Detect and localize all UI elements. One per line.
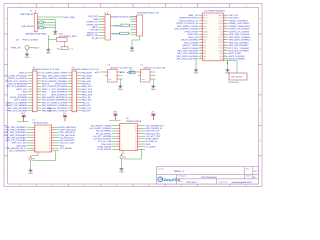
svg-text:E: E: [259, 140, 261, 143]
svg-text:SPI1_MISO_ADC6/PA6: SPI1_MISO_ADC6/PA6: [176, 55, 199, 58]
svg-text:CSN_NRF24L01: CSN_NRF24L01: [60, 134, 76, 137]
svg-text:PA1: PA1: [203, 41, 206, 44]
svg-text:3: 3: [33, 78, 34, 80]
svg-text:C6 104: C6 104: [112, 32, 118, 35]
svg-text:NRST: NRST: [203, 30, 208, 33]
svg-text:KM_USART1_RX/PA10: KM_USART1_RX/PA10: [89, 127, 112, 130]
svg-text:REV:: REV:: [246, 167, 251, 170]
svg-text:GND: GND: [28, 172, 33, 175]
svg-text:AMS1117-5.0_SOT-223: AMS1117-5.0_SOT-223: [143, 66, 166, 69]
svg-text:5V: 5V: [152, 111, 155, 114]
svg-text:ADC9_TIM3/PB1: ADC9_TIM3/PB1: [51, 80, 68, 83]
svg-text:USART_RX: USART_RX: [86, 23, 98, 26]
svg-text:KEY_USER_PC13/LED1: KEY_USER_PC13/LED1: [4, 74, 28, 77]
svg-text:3V3: 3V3: [42, 93, 47, 96]
svg-text:SPI1_MOSI_T3/PA7: SPI1_MOSI_T3/PA7: [48, 74, 68, 77]
svg-text:U6: U6: [126, 117, 128, 120]
svg-text:PB15_MO: PB15_MO: [82, 99, 92, 102]
svg-text:Your Company: Your Company: [201, 176, 218, 179]
svg-text:PA12: PA12: [219, 22, 223, 25]
svg-text:VDD_3V3: VDD_3V3: [229, 14, 239, 17]
svg-text:U2: U2: [33, 118, 35, 121]
svg-text:GND: GND: [25, 56, 30, 59]
svg-text:TP: TP: [124, 156, 127, 159]
svg-text:PA6_MISO: PA6_MISO: [82, 72, 93, 75]
svg-text:U4: U4: [141, 64, 143, 67]
svg-text:D: D: [259, 109, 261, 112]
svg-text:LED_ACT_OUT: LED_ACT_OUT: [146, 135, 162, 138]
svg-text:VBAT_IN: VBAT_IN: [19, 72, 28, 75]
svg-text:11: 11: [33, 100, 35, 102]
svg-text:NRF_SPI2_NSS/PB12: NRF_SPI2_NSS/PB12: [5, 126, 27, 129]
svg-text:USART1_RX_IR/PA10: USART1_RX_IR/PA10: [229, 28, 251, 31]
svg-text:KEY-BOOT0_SMD: KEY-BOOT0_SMD: [59, 35, 77, 38]
svg-text:PB11_SDA: PB11_SDA: [82, 88, 93, 91]
svg-text:14: 14: [72, 108, 74, 110]
svg-text:USART2_RX_DBG/PA3: USART2_RX_DBG/PA3: [5, 104, 28, 107]
svg-text:A: A: [259, 18, 261, 21]
svg-text:4: 4: [116, 5, 118, 8]
svg-text:PB10_SCL: PB10_SCL: [82, 85, 93, 88]
svg-text:SPI2_SCK/PB13: SPI2_SCK/PB13: [51, 93, 67, 96]
svg-text:OSC_IN/PD0_XTAL8M: OSC_IN/PD0_XTAL8M: [177, 25, 199, 28]
svg-text:SCK_NRF24L01: SCK_NRF24L01: [60, 131, 76, 134]
svg-text:SW1 RESET: SW1 RESET: [231, 76, 243, 79]
svg-text:XC1_16MHZ: XC1_16MHZ: [60, 147, 73, 150]
svg-text:OSC32_IN_X2/PC14: OSC32_IN_X2/PC14: [8, 77, 28, 80]
svg-text:PA5: PA5: [203, 52, 206, 55]
svg-text:PA4: PA4: [203, 49, 206, 52]
svg-text:HEADER-FEMALE 2.54-1x9: HEADER-FEMALE 2.54-1x9: [111, 16, 138, 19]
svg-text:PA10: PA10: [219, 28, 223, 31]
svg-text:MCO_TIM1_CH1/PA8: MCO_TIM1_CH1/PA8: [229, 33, 250, 36]
svg-text:USB_DM/USB_DP_11: USB_DM/USB_DP_11: [6, 147, 28, 150]
svg-text:10: 10: [72, 97, 74, 99]
svg-text:ADC1_IN/PA1: ADC1_IN/PA1: [14, 99, 28, 102]
svg-text:SPI1_SCK_ADC5/PA5: SPI1_SCK_ADC5/PA5: [177, 52, 199, 55]
svg-text:VBAT_3V3: VBAT_3V3: [188, 14, 199, 17]
svg-text:B: B: [259, 48, 261, 51]
svg-text:8: 8: [72, 91, 73, 93]
svg-text:1: 1: [33, 73, 34, 75]
svg-text:7: 7: [213, 5, 215, 8]
svg-text:NRF_IRQ_EXTI/PB10: NRF_IRQ_EXTI/PB10: [6, 136, 27, 139]
svg-text:VDDA_3V3: VDDA_3V3: [188, 36, 199, 39]
svg-text:CFG1_MODE1: CFG1_MODE1: [97, 148, 112, 151]
svg-text:2: 2: [52, 5, 54, 8]
svg-text:I2C2_SDA_RX3/PB11: I2C2_SDA_RX3/PB11: [229, 49, 250, 52]
svg-text:USART2_TX_DBG/PA2: USART2_TX_DBG/PA2: [5, 101, 28, 104]
svg-text:SPI2_MISO/PB14: SPI2_MISO/PB14: [50, 96, 67, 99]
svg-text:GND: GND: [42, 74, 47, 77]
svg-text:USART1_TX/PA9: USART1_TX/PA9: [51, 101, 68, 104]
svg-text:4.7K: 4.7K: [69, 48, 74, 51]
svg-text:NRST_KEY: NRST_KEY: [16, 88, 28, 91]
svg-text:PA7_MOSI: PA7_MOSI: [82, 74, 93, 77]
svg-text:CFG0_MODE0: CFG0_MODE0: [97, 145, 112, 148]
svg-text:GND: GND: [42, 91, 47, 94]
svg-text:SPI2_NSS/PB12: SPI2_NSS/PB12: [51, 91, 67, 94]
svg-text:GND: GND: [194, 72, 199, 75]
svg-text:PB0_AD8: PB0_AD8: [82, 77, 92, 80]
svg-text:GND: GND: [60, 144, 65, 147]
svg-text:7: 7: [33, 89, 34, 91]
svg-text:PA1_AD: PA1_AD: [42, 99, 50, 102]
svg-text:WKUP_ADC0/PA0: WKUP_ADC0/PA0: [10, 96, 28, 99]
svg-text:11: 11: [72, 100, 74, 102]
svg-text:7: 7: [72, 89, 73, 91]
svg-text:5V_USB_IN: 5V_USB_IN: [146, 140, 158, 143]
svg-text:12: 12: [72, 102, 74, 104]
svg-text:SPI2_SCK_I2S/PB13: SPI2_SCK_I2S/PB13: [229, 41, 250, 44]
svg-text:PWR_LED-0603: PWR_LED-0603: [23, 38, 39, 41]
svg-text:PA11: PA11: [219, 25, 223, 28]
svg-text:PA2: PA2: [203, 44, 206, 47]
svg-text:SWCLK_CK: SWCLK_CK: [86, 34, 99, 37]
svg-text:EasyEDA: EasyEDA: [164, 178, 181, 182]
svg-text:GND: GND: [108, 78, 112, 81]
svg-text:▸5V: ▸5V: [95, 71, 99, 74]
svg-text:PB15: PB15: [219, 36, 223, 39]
svg-text:PA11_DM: PA11_DM: [82, 107, 91, 110]
svg-text:GND: GND: [46, 51, 51, 54]
svg-text:J6 HEADER-MALE 1x8: J6 HEADER-MALE 1x8: [137, 11, 160, 14]
svg-text:MISO_NRF24L01: MISO_NRF24L01: [60, 129, 77, 132]
svg-text:GND: GND: [53, 33, 58, 36]
svg-text:ADC8_TIM3/PB0: ADC8_TIM3/PB0: [229, 58, 246, 61]
svg-text:8: 8: [33, 91, 34, 93]
svg-text:KM_USART1_TX/PA9: KM_USART1_TX/PA9: [91, 125, 112, 128]
svg-text:USBDP_CANTX/PA12: USBDP_CANTX/PA12: [229, 22, 251, 25]
svg-text:WKUP_ADC0/PA0: WKUP_ADC0/PA0: [181, 39, 199, 42]
svg-text:PA13: PA13: [219, 19, 223, 22]
svg-text:3: 3: [84, 5, 86, 8]
svg-text:ADC9_TIM3/PB1: ADC9_TIM3/PB1: [229, 55, 246, 58]
svg-text:CE_NRF24L01: CE_NRF24L01: [60, 136, 75, 139]
svg-text:5: 5: [149, 5, 151, 8]
svg-text:SPI2_MOSI/PB15: SPI2_MOSI/PB15: [50, 99, 67, 102]
svg-text:GND: GND: [23, 91, 28, 94]
svg-text:SPI1_NSS_ADC4/PA4: SPI1_NSS_ADC4/PA4: [177, 49, 199, 52]
svg-text:PD0: PD0: [203, 25, 206, 28]
svg-text:Sheet:: Sheet:: [246, 174, 252, 177]
svg-text:PB10: PB10: [219, 47, 223, 50]
svg-text:PB13: PB13: [219, 41, 223, 44]
svg-text:VDD3: VDD3: [218, 14, 223, 17]
svg-text:TP: TP: [33, 157, 36, 160]
svg-text:GND: GND: [146, 143, 151, 146]
svg-text:F: F: [260, 170, 262, 173]
svg-text:PD0_IN: PD0_IN: [42, 83, 50, 86]
svg-text:SWDIO_IO: SWDIO_IO: [87, 31, 98, 34]
svg-text:CH9329-SOP16: CH9329-SOP16: [126, 120, 142, 123]
svg-text:C5 104: C5 104: [113, 24, 119, 27]
svg-text:USB_DM_CRX/PA11: USB_DM_CRX/PA11: [47, 107, 67, 110]
svg-text:9: 9: [33, 94, 34, 96]
svg-text:GND: GND: [118, 88, 123, 91]
svg-text:SPI2_MOSI_TIM/PB15: SPI2_MOSI_TIM/PB15: [229, 36, 251, 39]
svg-text:PA8: PA8: [220, 33, 223, 36]
svg-text:13: 13: [72, 105, 74, 107]
svg-text:F: F: [5, 170, 7, 173]
svg-text:PB12_NSS: PB12_NSS: [82, 91, 93, 94]
svg-text:LED_STATE/PC13: LED_STATE/PC13: [9, 150, 27, 153]
svg-text:I2C2_SCL_TX3/PB10: I2C2_SCL_TX3/PB10: [229, 47, 250, 50]
svg-text:TAMPER-RTC/PC13: TAMPER-RTC/PC13: [179, 17, 199, 20]
svg-text:P1: P1: [30, 9, 32, 12]
svg-text:USB-MICRO-5P-SMD: USB-MICRO-5P-SMD: [25, 33, 47, 36]
svg-text:VCC_5V_USB: VCC_5V_USB: [98, 140, 112, 143]
svg-text:USART2_TX/PA2: USART2_TX/PA2: [182, 44, 199, 47]
svg-text:PA9_TX: PA9_TX: [82, 101, 90, 104]
svg-text:VBAT: VBAT: [203, 14, 207, 17]
svg-text:GND: GND: [93, 18, 98, 21]
svg-text:BOOT1_PB2: BOOT1_PB2: [229, 52, 242, 55]
svg-text:SWDIO_JTMS/PA13: SWDIO_JTMS/PA13: [229, 19, 249, 22]
svg-text:NRF_SPI2_MISO/PB14: NRF_SPI2_MISO/PB14: [4, 131, 27, 134]
svg-text:OSC_IN_8MHZ/PD0: OSC_IN_8MHZ/PD0: [8, 83, 28, 86]
svg-text:SPI1_NSS_DAC/PA4: SPI1_NSS_DAC/PA4: [7, 107, 28, 110]
svg-text:6: 6: [72, 86, 73, 88]
svg-text:3V3_OUT_LDO: 3V3_OUT_LDO: [60, 142, 75, 145]
svg-text:NRF_SPI2_MOSI/PB15: NRF_SPI2_MOSI/PB15: [4, 134, 27, 137]
svg-text:2: 2: [72, 75, 73, 77]
svg-text:13: 13: [33, 105, 35, 107]
svg-text:5V_IN: 5V_IN: [92, 37, 98, 40]
svg-text:GND: GND: [130, 50, 135, 53]
svg-text:TXD_CH9329_OUT: TXD_CH9329_OUT: [146, 125, 165, 128]
svg-text:PB1_AD9: PB1_AD9: [82, 80, 92, 83]
svg-text:PB2: PB2: [220, 52, 223, 55]
svg-text:PB14_MI: PB14_MI: [82, 96, 91, 99]
svg-text:PC14: PC14: [203, 19, 207, 22]
svg-text:SPI1_SCK_DAC/PA5: SPI1_SCK_DAC/PA5: [7, 110, 28, 113]
svg-text:PA0: PA0: [203, 38, 206, 41]
svg-text:4: 4: [33, 81, 34, 83]
svg-text:USART1_RX/PA10: USART1_RX/PA10: [49, 104, 68, 107]
svg-text:▸3V3: ▸3V3: [34, 46, 40, 49]
svg-text:OSC_OUT_8MHZ/PD1: OSC_OUT_8MHZ/PD1: [6, 85, 28, 88]
svg-text:5: 5: [33, 83, 34, 85]
svg-text:USART2_RX/PA3: USART2_RX/PA3: [182, 47, 199, 50]
svg-text:U3: U3: [108, 64, 110, 67]
svg-text:PB14: PB14: [219, 38, 223, 41]
svg-text:BOOT1/PB2: BOOT1/PB2: [55, 83, 67, 86]
svg-text:▸5V_USB: ▸5V_USB: [65, 16, 75, 19]
svg-text:RXD_CH9329_IN: RXD_CH9329_IN: [146, 127, 163, 130]
svg-text:PC13: PC13: [203, 17, 207, 20]
svg-text:www.easyeda.com: www.easyeda.com: [232, 181, 252, 184]
svg-text:PA3: PA3: [203, 47, 206, 50]
svg-text:U1 STM32F103C8T6: U1 STM32F103C8T6: [204, 10, 226, 13]
svg-text:NRST_K: NRST_K: [42, 88, 51, 91]
svg-text:KM_UD_M/PA11: KM_UD_M/PA11: [96, 132, 112, 135]
svg-text:SPI2_NSS_I2S/PB12: SPI2_NSS_I2S/PB12: [229, 44, 250, 47]
svg-text:ADC8_TIM3/PB0: ADC8_TIM3/PB0: [51, 77, 68, 80]
svg-text:USART_TX: USART_TX: [87, 21, 99, 24]
svg-text:OSC32_IN/PC14_X1: OSC32_IN/PC14_X1: [179, 19, 199, 22]
svg-text:PC15: PC15: [203, 22, 207, 25]
svg-text:VSS_GND: VSS_GND: [229, 17, 239, 20]
svg-text:USB PWR 5V: USB PWR 5V: [20, 13, 34, 16]
svg-text:NRF_VCC_3V3: NRF_VCC_3V3: [12, 142, 28, 145]
svg-text:TS-1187A-B: TS-1187A-B: [228, 81, 240, 84]
svg-text:3V3_OUT: 3V3_OUT: [88, 15, 98, 18]
svg-text:KM_UD_P/PA12: KM_UD_P/PA12: [96, 130, 112, 133]
svg-text:VSSA_GND: VSSA_GND: [187, 33, 199, 36]
svg-text:3V3: 3V3: [113, 111, 117, 114]
svg-text:C: C: [259, 79, 261, 82]
svg-text:GND_PAD: GND_PAD: [101, 143, 111, 146]
svg-text:BOOT0: BOOT0: [91, 29, 99, 32]
svg-text:PA6: PA6: [203, 55, 206, 58]
svg-text:5: 5: [72, 83, 73, 85]
svg-text:SPI1_MISO_T3/PA6: SPI1_MISO_T3/PA6: [48, 72, 68, 75]
svg-text:MOSI_NRF24L01: MOSI_NRF24L01: [60, 126, 77, 129]
svg-text:PB12: PB12: [219, 44, 223, 47]
svg-text:6: 6: [33, 86, 34, 88]
svg-text:PB0: PB0: [220, 58, 223, 61]
svg-text:NRF_CE_CTRL/PB11: NRF_CE_CTRL/PB11: [6, 139, 27, 142]
svg-text:D2: D2: [16, 38, 20, 41]
svg-text:2022-05-17: 2022-05-17: [187, 181, 199, 184]
svg-text:PB11: PB11: [219, 49, 223, 52]
svg-text:3: 3: [72, 78, 73, 80]
svg-text:VI: VI: [108, 71, 110, 74]
svg-text:PA12_DP: PA12_DP: [82, 110, 92, 113]
svg-text:PB13_SCK: PB13_SCK: [82, 93, 93, 96]
svg-text:KM_RST_IN/NRST: KM_RST_IN/NRST: [93, 138, 112, 141]
svg-text:NRST_INPUT: NRST_INPUT: [146, 138, 160, 141]
svg-text:KM_ACT_LED/PB5: KM_ACT_LED/PB5: [93, 135, 112, 138]
svg-text:14: 14: [33, 108, 35, 110]
svg-text:OSC32_OUT/PC15_X1: OSC32_OUT/PC15_X1: [177, 22, 200, 25]
svg-text:IRQ_NRF24L01: IRQ_NRF24L01: [60, 139, 76, 142]
svg-text:UDP_DP_OUT: UDP_DP_OUT: [146, 130, 161, 133]
svg-text:PD1: PD1: [203, 28, 206, 31]
svg-text:GND_PAD: GND_PAD: [16, 144, 26, 147]
svg-text:GND: GND: [151, 88, 156, 91]
svg-text:VI: VI: [141, 71, 143, 74]
svg-text:10: 10: [33, 97, 35, 99]
svg-text:NRST_RESET: NRST_RESET: [185, 30, 199, 33]
svg-text:GND: GND: [141, 78, 145, 81]
svg-text:GND: GND: [119, 170, 124, 173]
svg-text:Drawn By:: Drawn By:: [219, 181, 228, 184]
svg-text:PA2_TX: PA2_TX: [42, 101, 50, 104]
svg-text:C10: C10: [130, 68, 133, 71]
svg-text:PA9: PA9: [220, 30, 223, 33]
svg-text:NRF24L01-SMD: NRF24L01-SMD: [33, 122, 49, 125]
svg-text:4: 4: [72, 81, 73, 83]
svg-text:NRST: NRST: [92, 26, 99, 29]
svg-text:OSC_OUT/PD1_XTAL8M: OSC_OUT/PD1_XTAL8M: [175, 28, 199, 31]
svg-text:I2C2_SCL/PB10: I2C2_SCL/PB10: [52, 85, 68, 88]
svg-text:6: 6: [181, 5, 183, 8]
svg-text:VSS3: VSS3: [218, 17, 222, 20]
svg-text:PB2_BT1: PB2_BT1: [82, 83, 92, 86]
svg-text:PWR_ON: PWR_ON: [11, 46, 21, 49]
svg-text:XI_12MHZ: XI_12MHZ: [146, 145, 157, 148]
svg-text:1: 1: [20, 5, 22, 8]
svg-text:3V3_OUT: 3V3_OUT: [18, 93, 28, 96]
svg-text:I2C2_SDA/PB11: I2C2_SDA/PB11: [52, 88, 68, 91]
svg-text:12: 12: [33, 102, 35, 104]
svg-text:9: 9: [72, 94, 73, 96]
svg-text:TITLE:: TITLE:: [158, 167, 164, 170]
svg-text:15: 15: [33, 110, 35, 112]
svg-text:PB1: PB1: [220, 55, 223, 58]
svg-text:Sheet_1: Sheet_1: [174, 170, 184, 173]
svg-text:USART1_TX_CK/PA9: USART1_TX_CK/PA9: [229, 30, 250, 33]
svg-text:▸3V3: ▸3V3: [120, 71, 126, 74]
svg-text:2: 2: [33, 75, 34, 77]
svg-text:NRF_SPI2_SCK/PB13: NRF_SPI2_SCK/PB13: [5, 129, 27, 132]
svg-text:A: A: [5, 18, 7, 21]
svg-text:USBDM_CANRX/PA11: USBDM_CANRX/PA11: [229, 25, 251, 28]
svg-text:ADC1_IN1/PA1: ADC1_IN1/PA1: [184, 41, 199, 44]
svg-text:UDM_DM_OUT: UDM_DM_OUT: [146, 132, 161, 135]
svg-text:PA10_RX: PA10_RX: [82, 104, 92, 107]
svg-text:PA7: PA7: [203, 58, 206, 61]
svg-text:SPI2_MISO_TIM/PB14: SPI2_MISO_TIM/PB14: [229, 39, 251, 42]
svg-text:B: B: [5, 48, 7, 51]
svg-text:1: 1: [72, 73, 73, 75]
svg-text:OSC32_OUT_X2/PC15: OSC32_OUT_X2/PC15: [5, 80, 28, 83]
svg-text:R1: R1: [57, 48, 60, 51]
svg-text:USB_ID/GND: USB_ID/GND: [21, 25, 34, 28]
svg-text:8: 8: [245, 5, 247, 8]
